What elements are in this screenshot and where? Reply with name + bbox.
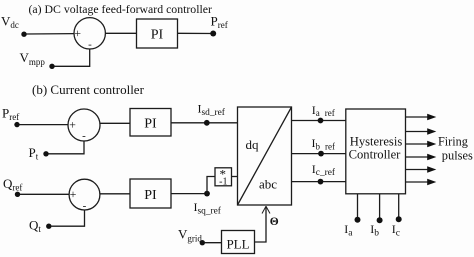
svg-text:-: - [82, 130, 86, 142]
firing pulse arrow 5 [406, 166, 437, 172]
wire Ib feedback [379, 194, 381, 218]
node Pref out [210, 31, 216, 37]
node Ia [355, 217, 361, 223]
svg-text:PLL: PLL [226, 237, 249, 252]
firing pulse arrow 2 [406, 128, 437, 134]
wire Qref to S3 [20, 193, 69, 195]
wire node up to inverter [207, 177, 215, 194]
wire Vmpp to S1 [55, 49, 90, 66]
wire PLL to dq (theta) [255, 208, 267, 243]
svg-text:PI: PI [144, 117, 157, 132]
wire Ia_ref [292, 120, 347, 122]
node Vgrid [200, 240, 205, 245]
svg-text:Hysteresis: Hysteresis [350, 135, 403, 149]
firing pulse arrow 6 [406, 179, 437, 185]
node Ic_ref [318, 179, 324, 185]
wire S1 to PI1 [105, 32, 136, 34]
node Ib [377, 217, 383, 223]
PI block U1 [137, 19, 178, 48]
svg-text:Controller: Controller [349, 148, 402, 162]
node Pt [43, 151, 48, 156]
svg-text:(b) Current controller: (b) Current controller [32, 82, 145, 97]
firing pulse arrow 3 [406, 141, 437, 147]
node Qref [15, 192, 20, 197]
wire Pt to S2 [49, 141, 85, 154]
summing junction S2 [68, 109, 100, 141]
wire inverter to dq [232, 176, 238, 178]
inverter block *-1 [215, 168, 232, 186]
svg-text:+: + [74, 26, 81, 40]
svg-text:-1: -1 [219, 176, 227, 187]
wire S3 to PI3 [100, 193, 130, 195]
wire PI2 to dq [171, 122, 238, 124]
wire PI1 to Pref [178, 32, 214, 34]
dq-abc transform block [238, 107, 292, 205]
node Ia_ref [318, 118, 324, 124]
svg-text:Firing: Firing [438, 134, 468, 148]
PI block U3 [130, 179, 171, 208]
node Vmpp [49, 64, 54, 69]
node Ib_ref [318, 151, 324, 157]
node Ic [396, 216, 402, 222]
svg-text:+: + [69, 117, 76, 131]
hysteresis controller block [346, 109, 406, 194]
svg-text:+: + [70, 187, 77, 201]
wire Ia feedback [357, 194, 359, 218]
wire Vdc to summer [27, 33, 75, 35]
node Vdc [21, 32, 26, 37]
svg-text:pulses: pulses [442, 148, 473, 162]
svg-text:PI: PI [144, 188, 157, 203]
firing pulse arrow 4 [406, 154, 437, 160]
node Pref in [14, 122, 19, 127]
wire Pref to S2 [20, 124, 69, 126]
PI block U2 [130, 109, 171, 137]
wire Ic_ref [292, 181, 347, 183]
svg-text:dq: dq [246, 137, 260, 152]
svg-text:(a) DC voltage feed-forward co: (a) DC voltage feed-forward controller [29, 2, 212, 16]
svg-text:abc: abc [259, 177, 277, 192]
wire Vgrid to PLL [205, 242, 222, 244]
node Isq [204, 191, 210, 197]
arrowhead theta [262, 206, 270, 213]
wire S2 to PI2 [100, 122, 130, 124]
svg-text:-: - [88, 39, 92, 51]
node Isd_ref [204, 120, 210, 126]
summing junction S1 [74, 18, 105, 49]
svg-text:PI: PI [151, 28, 164, 43]
summing junction S3 [69, 179, 100, 210]
firing pulse arrow 1 [406, 114, 437, 120]
svg-text:Θ: Θ [270, 216, 279, 228]
wire Qt to S3 [51, 210, 84, 226]
wire Ic feedback [398, 194, 400, 217]
node Qt [46, 224, 51, 229]
wire Ib_ref [292, 153, 347, 155]
wire PI3 to node [171, 193, 207, 195]
PLL block [222, 231, 255, 254]
